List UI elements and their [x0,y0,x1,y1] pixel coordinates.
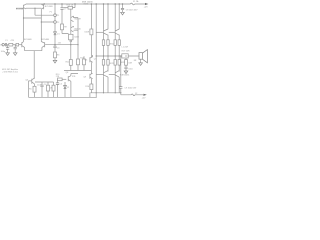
wire Q3 emitter [33,84,35,87]
transistor QD (lower out 2) [115,71,119,78]
wire mid links [64,56,91,70]
resistor R5 [33,86,36,92]
wire [57,84,59,97]
capacitor C8 [121,8,124,9]
resistor R20 [125,60,128,66]
resistor RE7 [114,60,116,66]
svg-text:BC546B: BC546B [24,39,32,41]
wire DP2 base [44,44,47,46]
svg-text:P1: P1 [50,12,52,14]
wire right collector [41,9,53,41]
transistor Q6 [90,55,93,62]
wire x77 long [77,18,79,59]
wire to gnd [54,58,56,61]
wire x123 top decoupling [122,4,124,8]
wire feedback node [45,44,78,46]
resistor R10 [68,6,73,9]
wire QA base [96,31,103,33]
wire x55 mid [54,35,56,46]
wire [104,65,120,71]
wire [33,92,35,97]
transistor Q5 (driver bottom) [71,26,74,32]
resistor R2 [16,43,19,46]
ground (zobel) [124,71,128,74]
wire left collector [23,9,25,41]
wire stub [74,16,79,18]
wire base rail [26,7,41,9]
transistor Q8 [68,74,71,82]
wire x93 column [90,4,92,29]
fuse F1 [131,3,135,5]
wire to rail [104,45,120,56]
svg-text:F1 2A: F1 2A [133,0,139,3]
capacitor C3 [14,47,17,49]
capacitor C2 [6,48,9,50]
wire [90,79,92,98]
wire [61,9,63,24]
wire [120,88,122,93]
svg-text:+ 60W RMS 8 ohm: + 60W RMS 8 ohm [2,71,18,73]
svg-text:100R: 100R [84,31,89,33]
svg-text:C8 100n 63V: C8 100n 63V [126,9,138,11]
ground (top) [121,12,125,15]
resistor RE5 [102,60,104,66]
wire [90,62,92,73]
resistor R16 [90,84,93,90]
wire [90,35,92,57]
wire QC base [96,74,103,76]
wire DP1 emitter [24,47,26,50]
wire [125,69,127,71]
svg-text:F2: F2 [135,93,137,95]
wire x55 upper [54,4,56,32]
transistor QC (lower out 1) [104,71,109,78]
wire [64,82,66,97]
capacitor C5 [56,83,59,85]
wire box left [64,7,69,9]
ground (input a) [6,53,10,56]
wire [122,10,124,13]
transistor QB (upper out 2) [115,29,119,35]
notes text block [2,68,19,74]
wire x97.5 long [95,4,97,97]
junction dots [23,3,127,93]
ground (feedback) [53,60,57,63]
wire [104,4,120,29]
svg-text:10R: 10R [128,62,132,64]
resistor R9 [61,24,64,30]
ground (speaker) [139,63,143,66]
resistor RE3 [114,40,116,46]
diode D1 [54,32,57,35]
wire Q3 base [29,81,32,97]
wire to emitter resistors [104,35,120,40]
trimmer preset P2 [69,34,74,40]
resistor R1 [9,43,13,46]
svg-text:BD140: BD140 [75,29,82,31]
svg-text:D2: D2 [67,87,69,89]
capacitor C1 [5,43,6,46]
wire tail [33,51,35,79]
resistor RE4 [118,40,120,46]
wire QD base [109,74,115,76]
capacitor C9 [119,87,122,89]
wire QB base [109,31,115,33]
ground (input b) [13,53,17,56]
wire [8,49,16,53]
wire trimmer [70,32,72,59]
capacitor C10 [124,67,127,69]
svg-text:MJE15031: MJE15031 [120,75,130,77]
transistor Q4 (driver top) [71,16,74,22]
connector circle P1a [54,14,57,17]
svg-text:10uF: 10uF [37,85,42,87]
wire x75 stub [73,4,76,8]
wire to bottom rail [104,77,120,93]
resistor RE2 [107,40,109,46]
capacitor C6 [40,85,43,87]
svg-text:100n: 100n [128,68,132,70]
svg-text:BC556B: BC556B [16,8,24,10]
svg-text:R19 10R: R19 10R [122,50,130,52]
wire DP2 emitter [41,47,43,50]
arrow -42V [143,94,146,96]
resistor RE1 [102,40,104,46]
svg-text:BC546B: BC546B [42,39,50,41]
arrow +42V [145,3,148,5]
wire shunt drops [8,45,16,48]
wire to driver [70,9,72,17]
text labels [0,0,148,99]
wire output rail [96,55,138,57]
wire x121 bottom decoupling [120,56,122,87]
transistor Q1 (left mirror) [24,4,27,9]
inductor L1 [122,54,128,58]
resistor R6 [54,52,57,58]
wire mirror mid drop [35,8,53,15]
transistor Q2 (right mirror) [41,4,43,9]
resistor R10b [58,78,63,81]
wire between drivers [70,22,72,27]
capacitor C7 [60,8,63,10]
resistor R14 [83,59,86,65]
resistor R12 [69,60,72,66]
svg-text:L1 2uH: L1 2uH [122,46,129,48]
wire Q1 base [16,7,24,9]
wire bottom -V rail [91,93,144,95]
wire bias cluster [35,82,54,85]
resistor R7b [47,85,50,91]
wire to base [19,44,22,46]
svg-text:15030: 15030 [84,4,89,6]
svg-text:500R: 500R [74,37,79,39]
wire speaker [138,56,141,63]
wire x57.5 column [57,79,59,83]
diode D2 [64,86,67,89]
resistor R8b [52,85,55,91]
wire [62,30,69,34]
wire [42,87,54,98]
wire stub [74,26,79,30]
wire x62 from rail [61,4,63,8]
wire emitter join [25,50,42,52]
connector circle P1b [54,21,57,24]
zobel branch [125,58,127,60]
transistor Q3 (tail source) [32,78,35,84]
resistor R15 [90,29,93,35]
wire [4,44,8,46]
transistor Q7 [90,73,93,79]
svg-text:R10 1K: R10 1K [67,4,74,6]
svg-text:BC556B: BC556B [45,6,53,8]
input connector [2,44,4,46]
wire [71,74,78,98]
svg-text:C9 100n 63V: C9 100n 63V [125,88,137,90]
transistor DP2 (diff right) [41,42,44,48]
wire top +V rail [26,3,145,5]
svg-text:BD139: BD139 [75,19,82,21]
resistor R13 [77,59,80,65]
wire [13,44,16,46]
speaker SPK [139,53,142,60]
wire [54,48,56,52]
resistor RE8 [118,60,120,66]
lower emitter resistors [104,56,120,60]
wire collector link [24,17,42,19]
transistor DP1 (diff left) [22,42,25,48]
fuse F2 [131,94,135,96]
resistor RE6 [107,60,109,66]
transistor QA (upper out 1) [104,29,109,35]
wire bottom rail left [29,96,97,98]
wire [125,65,127,67]
wire [62,78,66,80]
capacitor C4 [53,46,56,48]
